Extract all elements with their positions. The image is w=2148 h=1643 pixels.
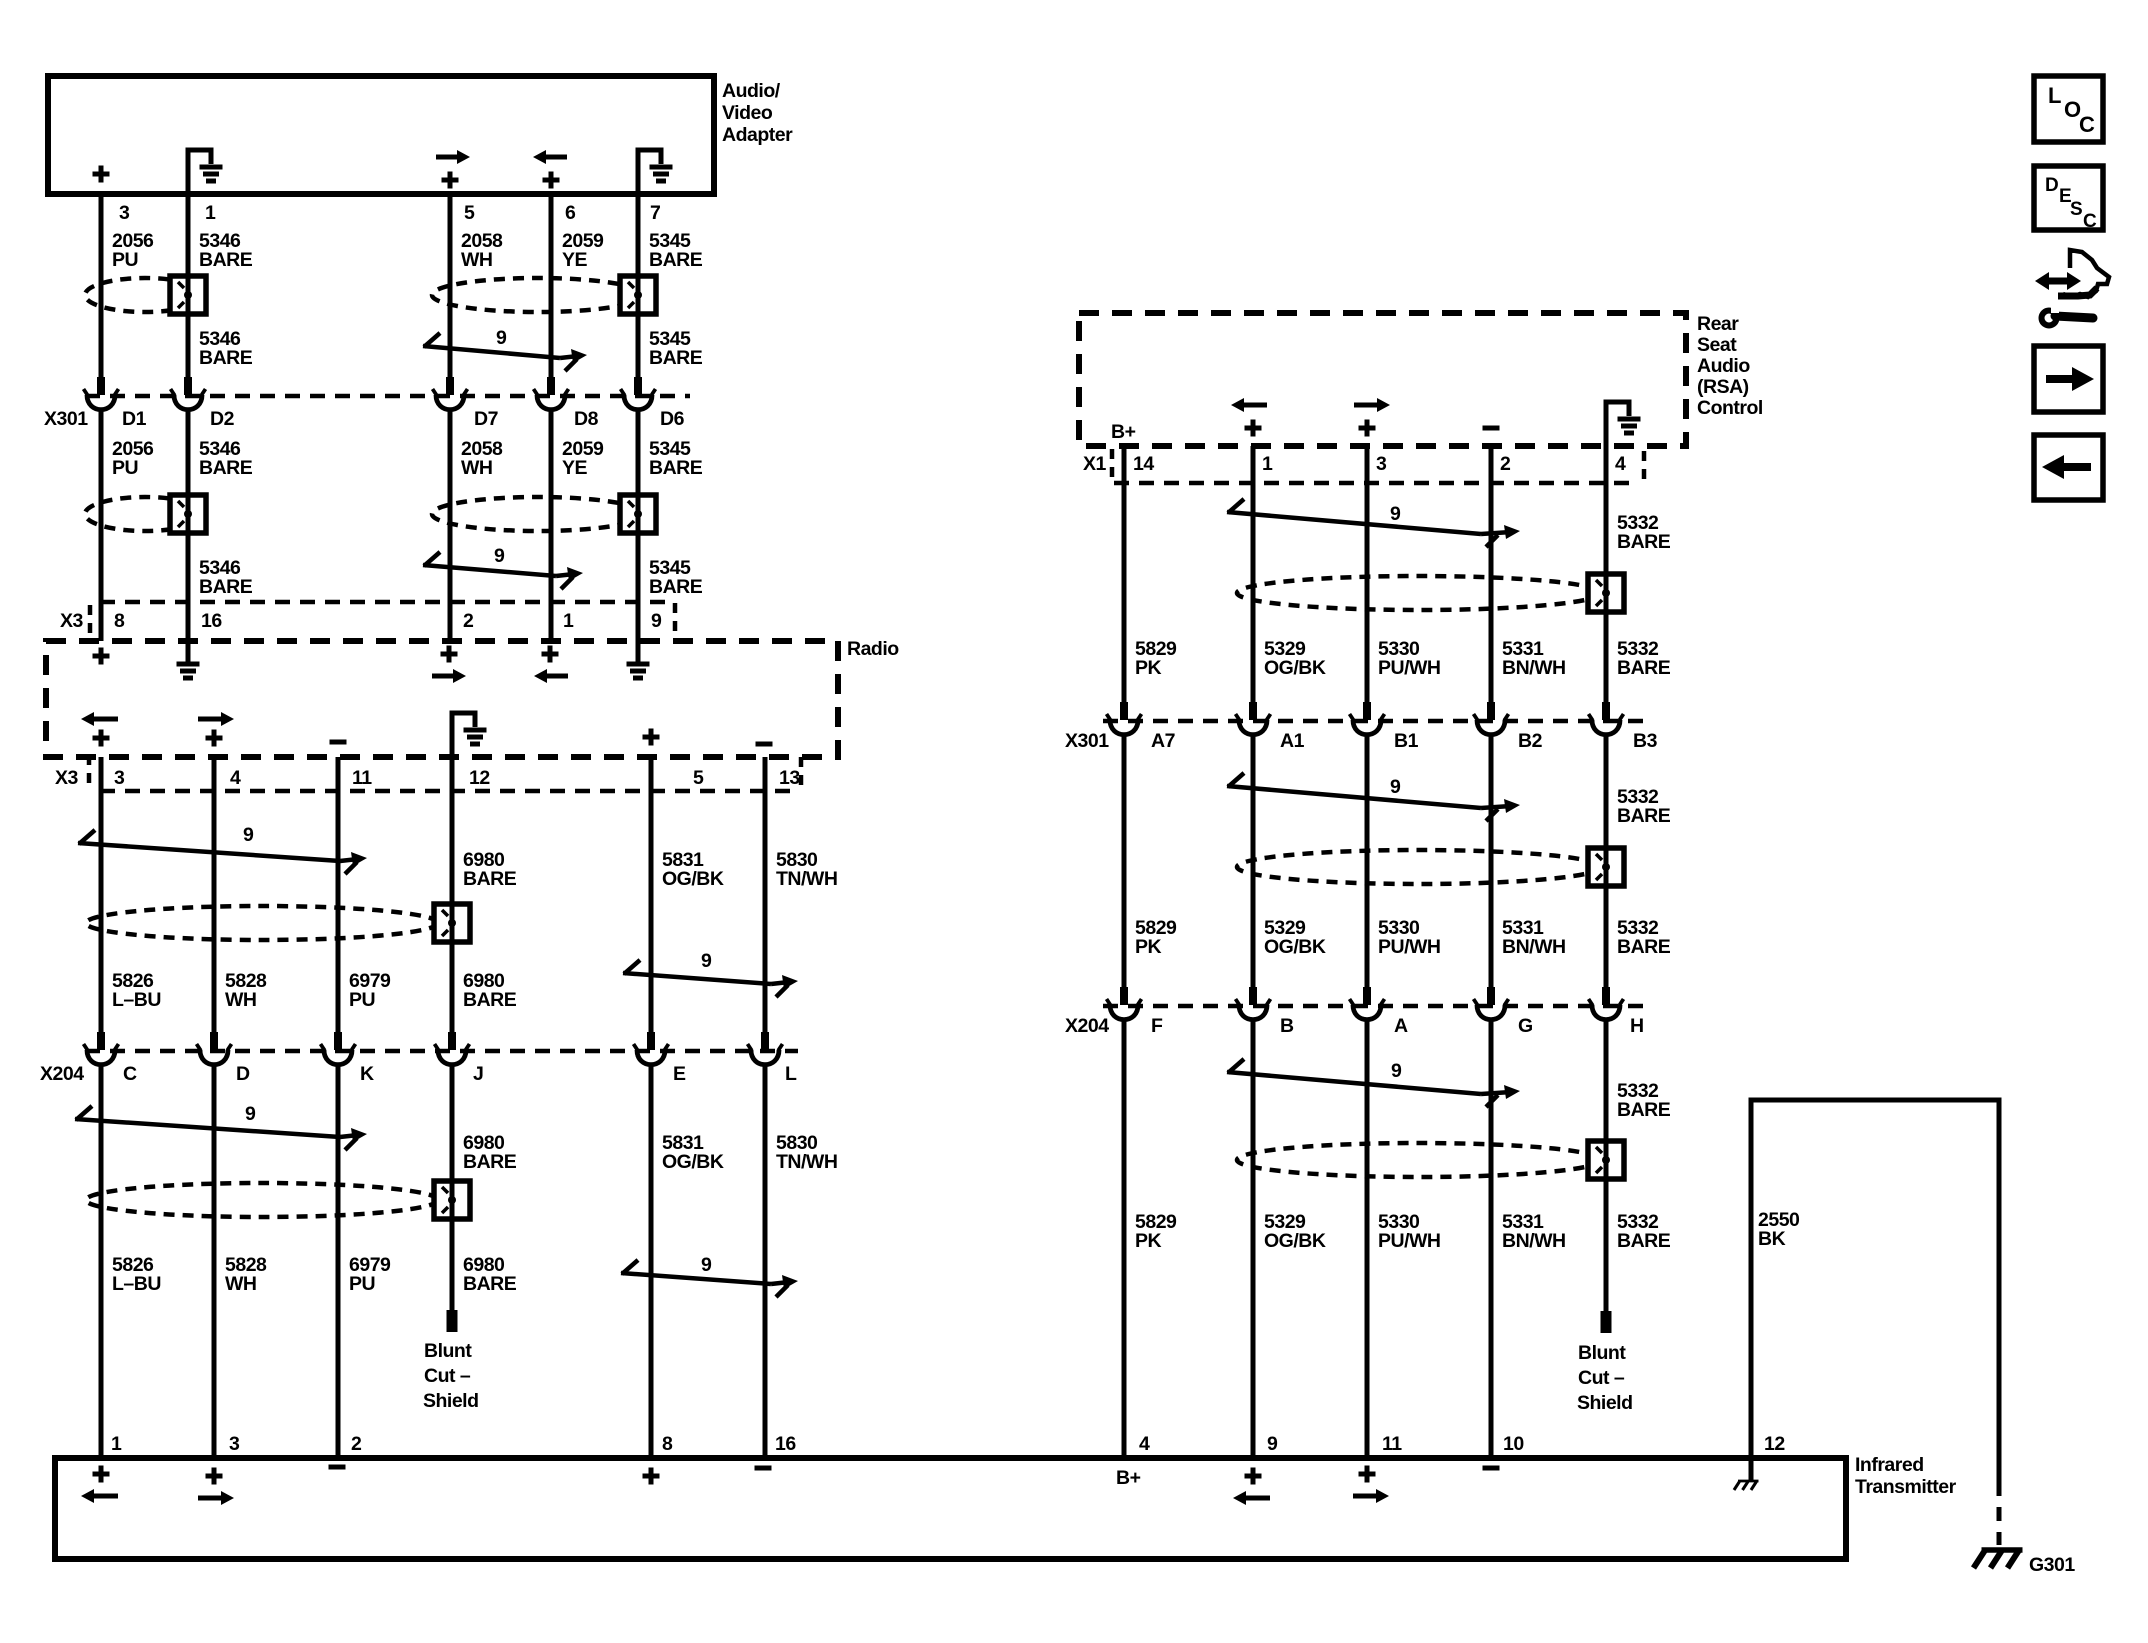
svg-text:BARE: BARE	[463, 1273, 517, 1295]
svg-text:BARE: BARE	[199, 576, 253, 598]
svg-text:13: 13	[779, 767, 800, 789]
svg-text:D: D	[2045, 175, 2058, 196]
svg-text:BARE: BARE	[649, 249, 703, 271]
svg-text:K: K	[360, 1063, 374, 1085]
svg-text:9: 9	[1390, 776, 1401, 798]
svg-text:BARE: BARE	[1617, 936, 1671, 958]
svg-text:11: 11	[352, 767, 372, 789]
svg-text:Blunt: Blunt	[424, 1340, 472, 1362]
svg-text:H: H	[1630, 1015, 1644, 1037]
svg-text:16: 16	[201, 610, 222, 632]
svg-text:9: 9	[701, 1254, 712, 1276]
svg-text:BARE: BARE	[1617, 531, 1671, 553]
svg-text:9: 9	[1267, 1433, 1278, 1455]
svg-text:Cut –: Cut –	[424, 1365, 471, 1387]
svg-text:1: 1	[563, 610, 574, 632]
svg-text:X204: X204	[40, 1063, 84, 1085]
svg-text:PU: PU	[349, 989, 375, 1011]
svg-text:Cut –: Cut –	[1578, 1367, 1625, 1389]
svg-text:1: 1	[111, 1433, 122, 1455]
svg-text:BARE: BARE	[1617, 1230, 1671, 1252]
svg-text:Infrared: Infrared	[1855, 1454, 1924, 1476]
svg-text:X3: X3	[55, 767, 79, 789]
svg-text:Shield: Shield	[423, 1390, 479, 1412]
svg-text:14: 14	[1133, 453, 1154, 475]
svg-text:B+: B+	[1116, 1467, 1141, 1489]
svg-text:4: 4	[1139, 1433, 1150, 1455]
svg-text:D: D	[236, 1063, 250, 1085]
svg-text:BN/WH: BN/WH	[1502, 1230, 1566, 1252]
svg-text:OG/BK: OG/BK	[1264, 936, 1326, 958]
svg-text:OG/BK: OG/BK	[662, 1151, 724, 1173]
svg-text:1: 1	[1262, 453, 1273, 475]
svg-text:L–BU: L–BU	[112, 989, 161, 1011]
svg-text:3: 3	[1376, 453, 1387, 475]
svg-text:9: 9	[701, 950, 712, 972]
svg-text:D2: D2	[210, 408, 235, 430]
svg-text:1: 1	[205, 202, 216, 224]
svg-text:Blunt: Blunt	[1578, 1342, 1626, 1364]
svg-text:D7: D7	[474, 408, 498, 430]
svg-text:X204: X204	[1065, 1015, 1109, 1037]
svg-text:BARE: BARE	[1617, 657, 1671, 679]
svg-text:TN/WH: TN/WH	[776, 1151, 837, 1173]
svg-text:PK: PK	[1135, 1230, 1162, 1252]
svg-text:WH: WH	[225, 1273, 257, 1295]
svg-text:7: 7	[650, 202, 660, 224]
svg-text:BARE: BARE	[463, 868, 517, 890]
svg-text:2: 2	[463, 610, 474, 632]
svg-text:B1: B1	[1394, 730, 1419, 752]
svg-text:3: 3	[229, 1433, 240, 1455]
svg-text:PU: PU	[112, 249, 138, 271]
svg-text:BARE: BARE	[649, 576, 703, 598]
svg-text:Adapter: Adapter	[722, 124, 793, 146]
svg-text:X301: X301	[1065, 730, 1109, 752]
svg-text:Transmitter: Transmitter	[1855, 1476, 1957, 1498]
svg-text:9: 9	[496, 327, 507, 349]
svg-text:BK: BK	[1758, 1228, 1786, 1250]
svg-text:D6: D6	[660, 408, 685, 430]
svg-text:16: 16	[775, 1433, 796, 1455]
svg-text:Control: Control	[1697, 397, 1763, 419]
svg-text:BARE: BARE	[199, 347, 253, 369]
svg-text:PU: PU	[112, 457, 138, 479]
svg-text:10: 10	[1503, 1433, 1524, 1455]
svg-text:(RSA): (RSA)	[1697, 376, 1749, 398]
svg-text:OG/BK: OG/BK	[662, 868, 724, 890]
svg-text:B: B	[1280, 1015, 1294, 1037]
svg-text:C: C	[123, 1063, 137, 1085]
svg-text:L: L	[2048, 83, 2061, 108]
svg-text:B+: B+	[1111, 421, 1136, 443]
svg-text:4: 4	[1615, 453, 1626, 475]
svg-text:Audio: Audio	[1697, 355, 1750, 377]
svg-text:TN/WH: TN/WH	[776, 868, 837, 890]
svg-text:6: 6	[565, 202, 576, 224]
svg-text:BARE: BARE	[1617, 1099, 1671, 1121]
svg-text:D1: D1	[122, 408, 147, 430]
svg-text:11: 11	[1382, 1433, 1402, 1455]
svg-text:YE: YE	[562, 249, 588, 271]
svg-text:WH: WH	[461, 249, 493, 271]
svg-text:BN/WH: BN/WH	[1502, 657, 1566, 679]
svg-text:5: 5	[464, 202, 475, 224]
svg-text:X3: X3	[60, 610, 84, 632]
svg-text:PU: PU	[349, 1273, 375, 1295]
svg-text:3: 3	[119, 202, 130, 224]
svg-text:BN/WH: BN/WH	[1502, 936, 1566, 958]
svg-text:BARE: BARE	[649, 347, 703, 369]
svg-text:YE: YE	[562, 457, 588, 479]
svg-text:X1: X1	[1083, 453, 1107, 475]
svg-text:5: 5	[693, 767, 704, 789]
svg-text:12: 12	[1764, 1433, 1785, 1455]
svg-text:A7: A7	[1151, 730, 1175, 752]
svg-text:2: 2	[351, 1433, 362, 1455]
svg-text:WH: WH	[225, 989, 257, 1011]
svg-text:PU/WH: PU/WH	[1378, 657, 1441, 679]
svg-text:BARE: BARE	[199, 249, 253, 271]
svg-text:D8: D8	[574, 408, 599, 430]
svg-text:PU/WH: PU/WH	[1378, 1230, 1441, 1252]
svg-text:G301: G301	[2029, 1554, 2075, 1576]
svg-text:9: 9	[243, 824, 254, 846]
svg-text:BARE: BARE	[649, 457, 703, 479]
svg-text:F: F	[1151, 1015, 1163, 1037]
svg-text:BARE: BARE	[463, 989, 517, 1011]
svg-text:C: C	[2083, 211, 2097, 232]
svg-text:BARE: BARE	[199, 457, 253, 479]
svg-text:A: A	[1394, 1015, 1408, 1037]
svg-text:G: G	[1518, 1015, 1533, 1037]
svg-text:L: L	[785, 1063, 797, 1085]
svg-text:9: 9	[245, 1103, 256, 1125]
svg-text:Audio/: Audio/	[722, 80, 781, 102]
svg-text:B2: B2	[1518, 730, 1543, 752]
svg-text:OG/BK: OG/BK	[1264, 1230, 1326, 1252]
svg-text:B3: B3	[1633, 730, 1658, 752]
svg-text:E: E	[673, 1063, 686, 1085]
svg-text:L–BU: L–BU	[112, 1273, 161, 1295]
svg-text:Rear: Rear	[1697, 313, 1739, 335]
svg-text:OG/BK: OG/BK	[1264, 657, 1326, 679]
svg-text:BARE: BARE	[463, 1151, 517, 1173]
svg-text:2: 2	[1500, 453, 1511, 475]
svg-text:PK: PK	[1135, 657, 1162, 679]
svg-text:12: 12	[469, 767, 490, 789]
svg-text:A1: A1	[1280, 730, 1305, 752]
svg-text:C: C	[2079, 112, 2095, 137]
svg-text:8: 8	[114, 610, 125, 632]
svg-text:PK: PK	[1135, 936, 1162, 958]
svg-text:WH: WH	[461, 457, 493, 479]
svg-text:S: S	[2070, 199, 2082, 220]
svg-text:Seat: Seat	[1697, 334, 1737, 356]
svg-text:4: 4	[230, 767, 241, 789]
svg-text:8: 8	[662, 1433, 673, 1455]
svg-text:9: 9	[651, 610, 662, 632]
svg-text:9: 9	[1390, 503, 1401, 525]
svg-text:X301: X301	[44, 408, 88, 430]
svg-text:9: 9	[494, 545, 505, 567]
svg-text:Radio: Radio	[847, 638, 899, 660]
svg-text:9: 9	[1391, 1060, 1402, 1082]
svg-text:BARE: BARE	[1617, 805, 1671, 827]
svg-text:J: J	[473, 1063, 483, 1085]
svg-text:3: 3	[114, 767, 125, 789]
svg-text:Video: Video	[722, 102, 773, 124]
svg-text:PU/WH: PU/WH	[1378, 936, 1441, 958]
svg-text:Shield: Shield	[1577, 1392, 1633, 1414]
